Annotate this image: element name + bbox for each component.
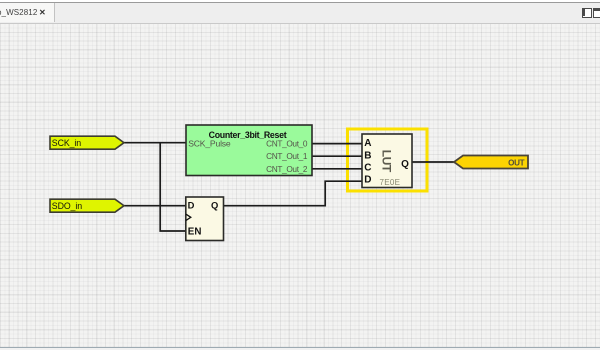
wire SCK_in to counter SCK_Pulse [124, 142, 186, 144]
wire SCK branch down to DFF EN [160, 143, 186, 231]
svg-text:OUT: OUT [508, 158, 525, 167]
wire DFF Q to LUT D [224, 181, 363, 206]
wire LUT Q to OUT port [412, 161, 455, 163]
wire SDO_in to DFF D [124, 205, 186, 207]
tab bar [0, 3, 600, 24]
svg-text:Q: Q [401, 159, 409, 170]
input port SCK_in [50, 136, 124, 149]
wire CNT_Out_0 to LUT A [312, 143, 362, 145]
svg-text:B: B [364, 150, 371, 161]
svg-text:SCK_Pulse: SCK_Pulse [188, 138, 231, 148]
svg-text:Q: Q [211, 200, 218, 211]
top separator line [0, 2, 600, 3]
active tab o_WS2812 [0, 3, 55, 22]
svg-text:SDO_in: SDO_in [52, 201, 82, 211]
svg-text:CNT_Out_2: CNT_Out_2 [266, 164, 308, 174]
wire CNT_Out_1 to LUT B [312, 155, 362, 157]
svg-text:C: C [364, 162, 371, 173]
selection highlight around LUT U1 [348, 129, 428, 191]
svg-text:D: D [364, 175, 371, 186]
output port OUT [454, 156, 528, 169]
counter block Counter_3bit_Reset [186, 125, 312, 176]
svg-text:A: A [364, 138, 371, 149]
input port SDO_in [50, 199, 124, 212]
svg-text:SCK_in: SCK_in [52, 138, 81, 148]
svg-text:CNT_Out_0: CNT_Out_0 [266, 139, 308, 149]
svg-text:D: D [188, 200, 195, 211]
bottom border line [0, 347, 600, 348]
D flip-flop DFF [186, 197, 224, 241]
clock wedge [186, 214, 191, 220]
svg-text:7E0E: 7E0E [380, 178, 401, 187]
LUT U1 [362, 134, 412, 188]
svg-text:LUT: LUT [379, 150, 393, 173]
wire CNT_Out_2 to LUT C [312, 168, 362, 170]
svg-text:CNT_Out_1: CNT_Out_1 [266, 151, 308, 161]
svg-text:EN: EN [188, 227, 202, 238]
window icon 1 [582, 8, 592, 18]
window icon 2 [593, 8, 600, 18]
